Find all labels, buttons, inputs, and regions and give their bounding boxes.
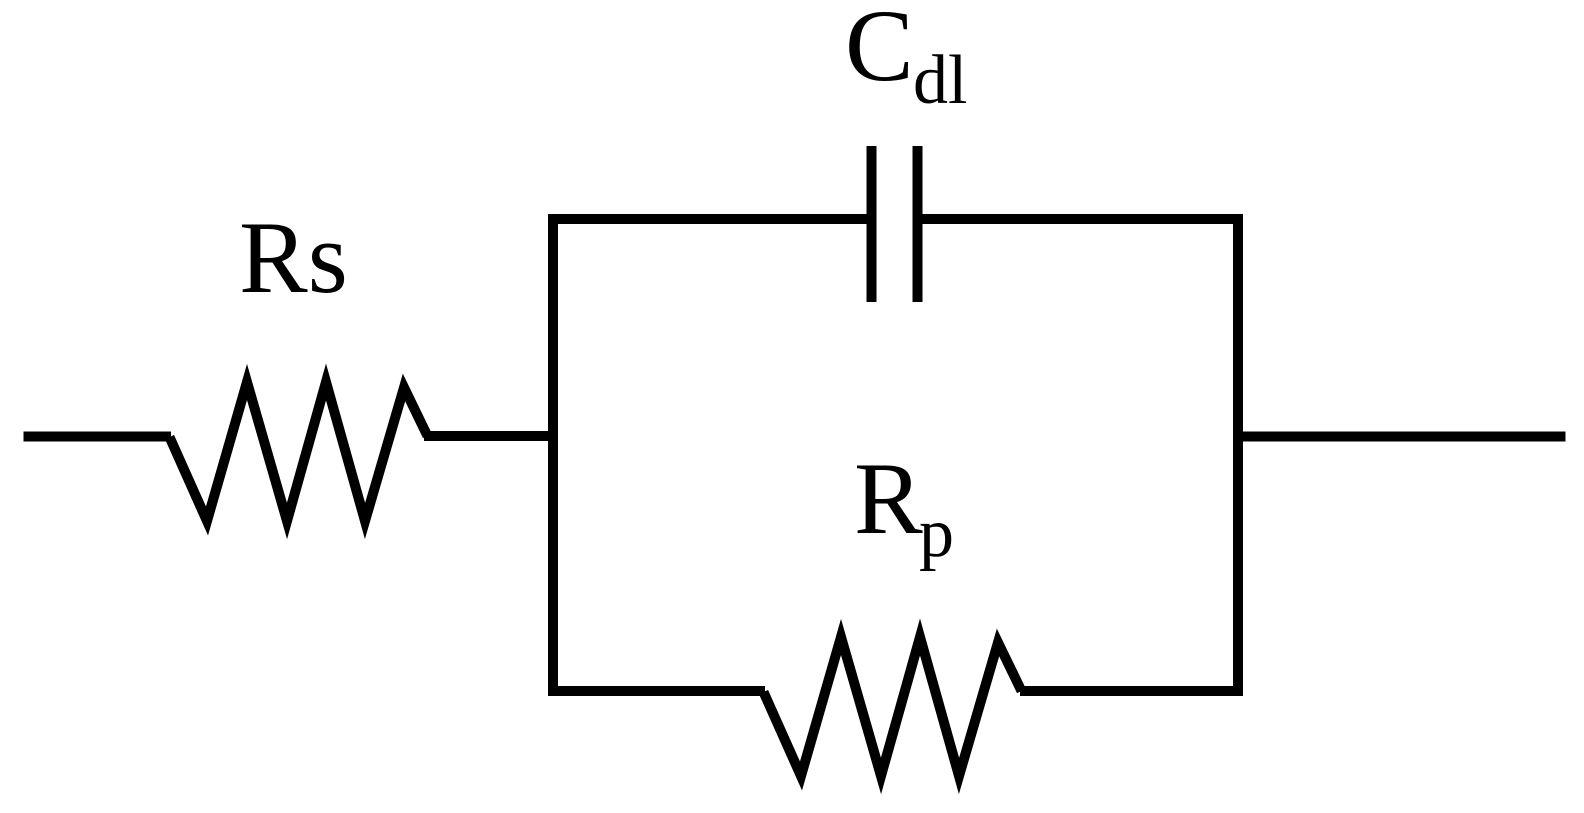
svg-text:p: p — [919, 495, 954, 572]
wire top-left branch (node A up and right to capacitor) — [553, 219, 867, 691]
capacitor C_dl left plate — [867, 146, 877, 302]
resistor Rp — [764, 637, 1022, 776]
wire Rs to node A — [424, 431, 553, 441]
resistor Rs — [170, 382, 428, 521]
wire input left — [24, 432, 172, 442]
wire output right — [1238, 432, 1566, 442]
svg-text:Rs: Rs — [239, 201, 348, 315]
svg-text:R: R — [854, 442, 923, 556]
svg-text:dl: dl — [913, 42, 967, 119]
capacitor C_dl right plate — [913, 146, 923, 302]
wire top-right branch (capacitor right to node B and down) — [922, 219, 1238, 691]
svg-text:C: C — [845, 0, 914, 103]
